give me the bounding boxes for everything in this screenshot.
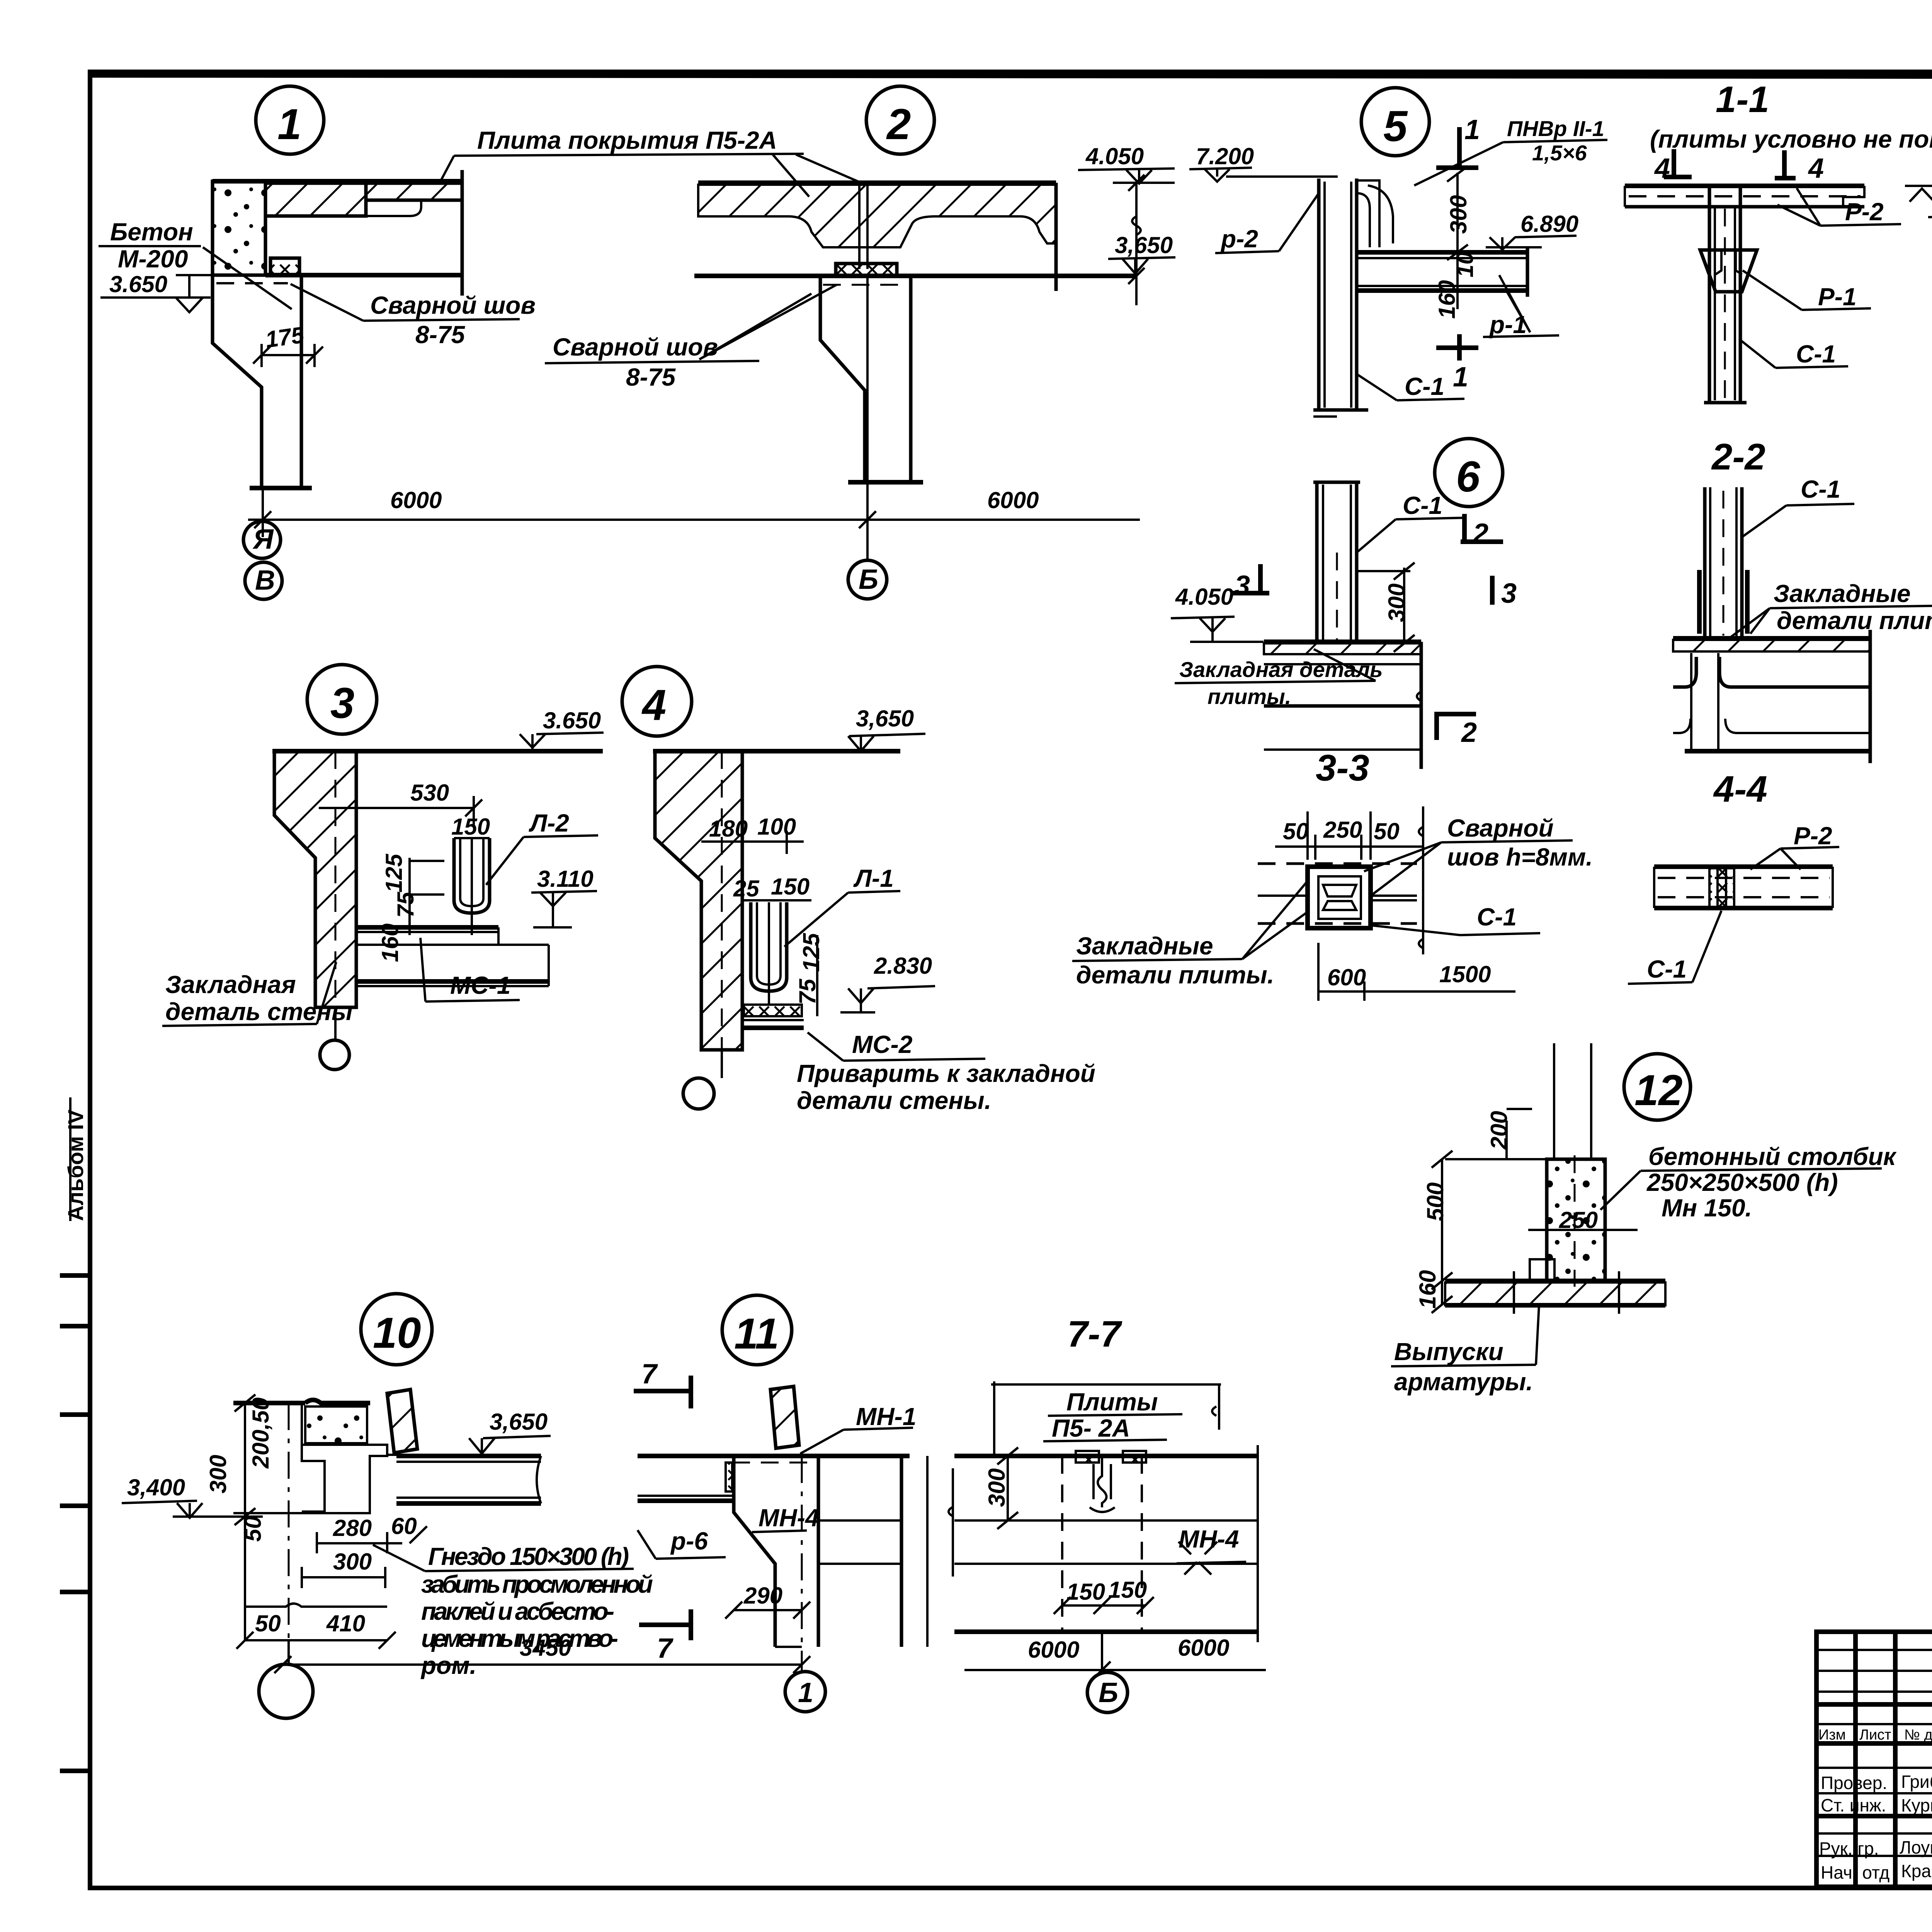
svg-text:4.050: 4.050 <box>1085 143 1144 169</box>
detail 2 callout circle <box>866 86 934 154</box>
detail 10 callout circle <box>361 1294 432 1365</box>
svg-text:250: 250 <box>1323 817 1362 843</box>
section mark 7 upper right of detail 10 <box>634 1359 692 1408</box>
detail 12 concrete post <box>1547 1155 1605 1287</box>
svg-text:3: 3 <box>1501 578 1517 609</box>
dimensions 125 75 detail 3 <box>381 853 444 935</box>
svg-text:3-3: 3-3 <box>1316 747 1369 789</box>
svg-text:8-75: 8-75 <box>415 321 466 349</box>
detail 10 anchor bolt <box>387 1389 419 1455</box>
section mark 1 bottom <box>1436 334 1478 393</box>
detail 11 anchor bolt <box>770 1386 799 1448</box>
dimension 200 detail 12 <box>1486 1109 1532 1150</box>
svg-text:500: 500 <box>1422 1182 1448 1221</box>
svg-text:Сварной шов: Сварной шов <box>553 333 718 361</box>
detail 1 slab body and bottom <box>265 170 462 296</box>
level mark 3,650 detail 4 <box>848 706 925 751</box>
svg-text:25: 25 <box>733 876 760 901</box>
svg-text:Мн 150.: Мн 150. <box>1662 1194 1752 1222</box>
label MH-4 section 7-7 <box>1177 1525 1246 1563</box>
detail 11 beam P-6 left <box>638 1463 734 1501</box>
detail 1 floor level line <box>176 274 270 276</box>
level mark 6.890 detail 5 <box>1486 211 1578 250</box>
dimension 500 detail 12 <box>1422 1151 1452 1305</box>
svg-text:6000: 6000 <box>390 487 442 513</box>
section 7-7 plate lines <box>949 1445 1258 1642</box>
svg-text:цементым раство-: цементым раство- <box>421 1624 618 1652</box>
bracket MC-1 detail 3 <box>356 923 549 986</box>
svg-text:ПНВр II-1: ПНВр II-1 <box>1507 116 1604 141</box>
section 7-7 joint pads <box>1076 1451 1146 1512</box>
svg-text:150: 150 <box>1066 1579 1105 1605</box>
svg-text:6.890: 6.890 <box>1520 211 1578 237</box>
level mark 3.650 detail 1 <box>100 271 211 312</box>
dimension 250 detail 12 <box>1528 1207 1638 1240</box>
detail 2 column axis <box>866 276 869 560</box>
section 7-7 slab top line <box>954 1454 1258 1458</box>
svg-text:12: 12 <box>1634 1066 1683 1114</box>
svg-text:Выпуски: Выпуски <box>1394 1338 1503 1366</box>
svg-text:плиты.: плиты. <box>1207 684 1291 709</box>
svg-text:200: 200 <box>1486 1111 1512 1150</box>
svg-text:шов h=8мм.: шов h=8мм. <box>1447 843 1593 871</box>
detail 4 wall hatched <box>653 751 900 1050</box>
section 1-1 beam P-2 <box>1625 186 1864 207</box>
detail 6 column C-1 <box>1313 482 1360 643</box>
label embedded plates 3-3 <box>1072 881 1308 989</box>
svg-text:4-4: 4-4 <box>1713 769 1767 810</box>
pad MC-2 detail 4 <box>742 1005 804 1028</box>
svg-text:МН-1: МН-1 <box>856 1403 916 1430</box>
label MH-1 <box>800 1403 916 1454</box>
level mark 3.110 detail 3 <box>531 866 597 927</box>
svg-text:50: 50 <box>1374 818 1400 844</box>
section title 3-3 <box>1316 747 1369 789</box>
svg-text:250×250×500 (h): 250×250×500 (h) <box>1646 1168 1838 1196</box>
svg-text:6000: 6000 <box>987 487 1039 513</box>
detail 5 callout circle <box>1361 88 1429 156</box>
svg-text:С-1: С-1 <box>1801 475 1840 503</box>
label C-1 section 4-4 <box>1628 911 1721 984</box>
section 3-3 dashed plate edges <box>1258 864 1417 923</box>
svg-text:50: 50 <box>240 1516 266 1542</box>
detail 2 right vertical dimension line <box>1128 175 1145 305</box>
svg-text:4: 4 <box>641 681 666 729</box>
detail 12 rebar stubs <box>1445 1043 1591 1159</box>
section title 1-1 <box>1716 79 1769 120</box>
svg-text:В: В <box>255 565 275 596</box>
detail 2 roof slab hatched <box>698 183 1056 247</box>
svg-text:Лист: Лист <box>1859 1727 1891 1743</box>
dimension 1500 section 3-3 <box>1364 961 1515 992</box>
label plates P5-2A section 7-7 <box>1043 1388 1182 1442</box>
socket note detail 10 <box>373 1543 653 1679</box>
svg-text:150: 150 <box>1108 1577 1147 1603</box>
label L-1 <box>784 864 900 947</box>
svg-text:6000: 6000 <box>1178 1635 1229 1661</box>
svg-text:1: 1 <box>277 100 301 148</box>
detail 2 slab bottom line <box>694 183 1136 291</box>
label concrete post 250x250x500 <box>1600 1143 1897 1222</box>
svg-text:4.050: 4.050 <box>1175 584 1233 610</box>
svg-text:1: 1 <box>1464 114 1480 145</box>
svg-text:1: 1 <box>1453 362 1468 393</box>
svg-text:160: 160 <box>377 923 403 962</box>
detail 1 roof slab hatched <box>213 181 462 216</box>
dimensions 180 100 detail 4 <box>701 814 804 854</box>
label P-2 section 4-4 <box>1750 822 1839 869</box>
detail 11 column with pocket <box>734 1456 927 1647</box>
svg-text:Грибкова: Грибкова <box>1901 1772 1932 1792</box>
dimension 10 and 160 vertical detail 5 <box>1434 252 1478 319</box>
section 7-7 dimension 300 <box>984 1447 1018 1529</box>
svg-text:60: 60 <box>391 1513 417 1539</box>
svg-text:Рук. гр.: Рук. гр. <box>1819 1838 1879 1859</box>
svg-text:7.200: 7.200 <box>1196 143 1254 169</box>
detail 1 bearing pad <box>270 258 299 275</box>
label P-6 <box>638 1527 726 1559</box>
detail 4 axis circle <box>683 1050 722 1109</box>
detail 5 beam end bracket <box>1357 180 1393 247</box>
section 4-4 beam plan P-2 <box>1654 867 1833 908</box>
svg-text:паклей и асбесто-: паклей и асбесто- <box>421 1597 614 1625</box>
svg-text:150: 150 <box>451 814 490 840</box>
section 3-3 beam lines <box>1258 896 1417 900</box>
detail 4 callout circle <box>622 667 692 736</box>
section 1-1 capital P-1 <box>1700 250 1757 292</box>
svg-text:1,5×6: 1,5×6 <box>1532 141 1587 165</box>
svg-text:290: 290 <box>743 1583 782 1609</box>
svg-text:3,650: 3,650 <box>856 706 914 731</box>
detail 2 column <box>820 276 923 482</box>
label weld seam h=8mm <box>1364 814 1593 896</box>
svg-text:детали стены.: детали стены. <box>797 1087 991 1114</box>
svg-text:10: 10 <box>1452 252 1478 277</box>
label weld seam 8-75 detail 1 <box>291 284 536 349</box>
detail 1 column <box>213 275 312 488</box>
svg-text:Красавин: Красавин <box>1901 1861 1932 1881</box>
svg-text:3,650: 3,650 <box>1115 232 1173 258</box>
svg-text:7: 7 <box>657 1633 673 1664</box>
svg-text:Изм: Изм <box>1818 1727 1846 1743</box>
svg-text:530: 530 <box>410 780 449 806</box>
svg-text:2: 2 <box>1472 518 1488 549</box>
svg-text:410: 410 <box>326 1611 365 1636</box>
svg-text:7: 7 <box>641 1359 658 1389</box>
svg-text:Сварной: Сварной <box>1447 814 1554 842</box>
dimension 6000 right of axis B <box>987 487 1039 513</box>
svg-text:Провер.: Провер. <box>1821 1773 1887 1793</box>
level mark 3.400 detail 10 <box>122 1475 226 1518</box>
detail 1 wall concrete block <box>213 181 265 275</box>
section mark 3 right <box>1492 576 1517 609</box>
label C-1 section 2-2 <box>1742 475 1854 537</box>
svg-text:4: 4 <box>1808 153 1824 184</box>
label C-1 detail 5 <box>1357 372 1464 400</box>
svg-text:5: 5 <box>1383 102 1408 150</box>
left margin tick marks <box>60 1276 90 1771</box>
detail 3 axis circle <box>320 1007 349 1070</box>
dimensions 25 150 detail 4 <box>733 874 811 901</box>
svg-text:6000: 6000 <box>1028 1637 1079 1663</box>
section 7-7 top dimension <box>991 1381 1221 1456</box>
label P-2 detail 5 <box>1215 193 1319 253</box>
section mark 4 right <box>1775 150 1824 184</box>
loop anchor L-2 detail 3 <box>454 838 490 935</box>
label P-2 section 1-1 <box>1777 188 1901 226</box>
dimension 530 detail 3 <box>319 780 482 827</box>
dimension 6000 between axes A and B <box>248 487 1140 528</box>
dimension 300 vertical detail 6 <box>1357 563 1415 652</box>
svg-text:МС-2: МС-2 <box>852 1031 912 1058</box>
axis bubble B(Б) detail 2 <box>848 560 887 599</box>
svg-text:Плита покрытия П5-2А: Плита покрытия П5-2А <box>477 126 777 154</box>
label embedded plate detail 6 <box>1175 649 1383 709</box>
level mark 2.830 detail 4 <box>840 953 935 1012</box>
level mark 4.050 detail 2 <box>1078 143 1175 184</box>
detail 10 left dimension chain <box>205 1395 289 1640</box>
label L-2 <box>486 809 598 885</box>
section mark 3 left <box>1231 564 1269 601</box>
level mark 3,650 detail 10 <box>469 1409 551 1456</box>
title block header texts <box>1818 1727 1932 1743</box>
label MH-4 detail 11 <box>752 1504 819 1532</box>
svg-text:ром.: ром. <box>420 1651 476 1679</box>
detail 3 callout circle <box>307 665 377 734</box>
svg-text:С-1: С-1 <box>1403 492 1442 519</box>
detail 11 axis circle 1 <box>785 1456 825 1712</box>
detail 2 center rib <box>859 183 867 269</box>
dimension 300 detail 10 <box>302 1549 385 1588</box>
section 1-1 column C-1 <box>1704 186 1747 403</box>
section 3-3 vertical dimension line <box>1419 806 1423 954</box>
label rebar outlets <box>1391 1305 1539 1396</box>
loop anchor L-1 detail 4 <box>751 902 787 1005</box>
svg-text:2: 2 <box>1461 717 1477 748</box>
label weld seam 8-75 detail 2 <box>545 285 837 391</box>
label embedded wall plate detail 3 <box>162 962 353 1026</box>
section 2-2 column C-1 <box>1699 487 1747 638</box>
svg-text:Закладные: Закладные <box>1076 932 1213 960</box>
detail 12 socket box <box>1530 1259 1554 1281</box>
detail 3 wall hatched <box>272 751 603 1007</box>
detail 5 column C-1 <box>1313 179 1368 417</box>
svg-text:50: 50 <box>255 1611 281 1636</box>
label MC-2 and weld note <box>797 1031 1095 1114</box>
label concrete M-200 <box>99 218 292 309</box>
svg-text:7-7: 7-7 <box>1067 1313 1122 1355</box>
note plates not shown 1-1 <box>1650 125 1932 153</box>
svg-text:3.110: 3.110 <box>537 866 594 892</box>
detail 12 base slab <box>1445 1271 1665 1314</box>
svg-text:С-1: С-1 <box>1405 372 1444 400</box>
svg-text:Ст. инж.: Ст. инж. <box>1821 1795 1886 1815</box>
svg-text:125: 125 <box>798 932 824 972</box>
dimension 160 detail 12 <box>1415 1270 1452 1313</box>
svg-text:125: 125 <box>381 853 407 893</box>
svg-text:№ докум: № докум <box>1904 1727 1932 1743</box>
svg-text:Р-2: Р-2 <box>1794 822 1832 850</box>
detail 2 bearing pad <box>836 264 897 276</box>
svg-text:6: 6 <box>1456 452 1480 501</box>
axis bubble A <box>243 521 281 558</box>
svg-text:Закладные: Закладные <box>1774 580 1911 607</box>
section title 2-2 <box>1711 436 1765 478</box>
svg-text:МН-4: МН-4 <box>759 1504 819 1532</box>
dimension 290 detail 11 <box>725 1583 810 1619</box>
svg-text:Сварной шов: Сварной шов <box>370 291 536 319</box>
svg-text:С-1: С-1 <box>1477 903 1517 931</box>
dimension 280 60 detail 10 <box>317 1513 427 1553</box>
label C-1 section 1-1 <box>1740 340 1848 368</box>
dimension 600 section 3-3 <box>1318 943 1366 1001</box>
section 2-2 floor slab with ribs <box>1673 630 1870 763</box>
svg-text:200,50: 200,50 <box>248 1397 274 1469</box>
svg-text:Курганова: Курганова <box>1901 1795 1932 1815</box>
detail 11 floor line <box>638 1456 910 1463</box>
level mark 7.200 section 1-1 <box>1905 186 1932 217</box>
dimension 175 <box>253 321 323 367</box>
svg-text:Лоуцкер: Лоуцкер <box>1900 1837 1932 1857</box>
svg-text:Я: Я <box>252 524 274 555</box>
svg-text:Р-2: Р-2 <box>1845 198 1884 226</box>
level mark 7.200 near detail 5 <box>1189 143 1338 182</box>
detail 1 column axis line <box>262 488 264 537</box>
svg-text:бетонный столбик: бетонный столбик <box>1648 1143 1897 1170</box>
detail 10 wall body with seat <box>233 1403 387 1513</box>
level mark 3.650 detail 3 <box>520 707 604 751</box>
detail 1 dashed joint line <box>216 282 288 284</box>
label C-1 section 3-3 <box>1372 903 1540 935</box>
svg-text:2-2: 2-2 <box>1711 436 1765 478</box>
svg-text:1: 1 <box>798 1677 813 1708</box>
title block staff table horizontals <box>1816 1650 1932 1856</box>
section mark 1 top <box>1436 114 1480 169</box>
svg-text:С-1: С-1 <box>1796 340 1836 368</box>
dimensions 75 125 detail 4 <box>794 932 824 1016</box>
svg-text:300: 300 <box>984 1468 1010 1507</box>
svg-text:р-6: р-6 <box>670 1527 708 1555</box>
section mark 2 bottom <box>1434 713 1477 748</box>
svg-text:арматуры.: арматуры. <box>1394 1368 1533 1396</box>
label P-1 detail 5 <box>1483 275 1559 338</box>
level mark 3.650 detail 2 <box>1108 232 1175 276</box>
title block outer box <box>1816 1632 1932 1887</box>
section mark 2 top <box>1461 514 1503 549</box>
svg-text:Плиты: Плиты <box>1066 1388 1158 1416</box>
svg-text:Б: Б <box>859 564 878 595</box>
svg-text:Приварить к закладной: Приварить к закладной <box>797 1060 1095 1087</box>
title block staff table verticals <box>1855 1632 1932 1887</box>
svg-text:1-1: 1-1 <box>1716 79 1769 120</box>
svg-text:(плиты условно не показаны): (плиты условно не показаны) <box>1650 125 1932 153</box>
svg-text:8-75: 8-75 <box>626 363 676 391</box>
detail 1 callout circle <box>256 86 324 154</box>
detail 5 beam P-1 <box>1357 247 1527 297</box>
section 7-7 axis circle B <box>1087 1632 1128 1713</box>
svg-text:Б: Б <box>1099 1677 1118 1708</box>
axis bubble B <box>245 562 282 599</box>
detail 10 top wall line <box>233 1400 370 1403</box>
section title 7-7 <box>1067 1313 1122 1355</box>
svg-text:300: 300 <box>205 1455 231 1493</box>
svg-text:детали плиты.: детали плиты. <box>1777 607 1932 634</box>
label P-1 section 1-1 <box>1743 270 1871 311</box>
svg-text:300: 300 <box>1384 583 1410 622</box>
section 3-3 dimension 50 250 50 <box>1275 811 1422 860</box>
svg-text:160: 160 <box>1434 280 1460 319</box>
svg-text:П5- 2А: П5- 2А <box>1052 1414 1130 1442</box>
svg-text:МС-1: МС-1 <box>450 971 510 999</box>
svg-text:р-2: р-2 <box>1220 225 1258 253</box>
title block staff names <box>1819 1772 1932 1883</box>
svg-text:М-200: М-200 <box>118 245 188 273</box>
svg-text:160: 160 <box>1415 1270 1440 1309</box>
svg-text:С-1: С-1 <box>1647 955 1687 983</box>
label MC-1 <box>420 938 520 1002</box>
label C-1 detail 6 <box>1357 492 1464 553</box>
label PNVr II-1 1,5x6 <box>1414 116 1607 185</box>
dimension 150 150 section 7-7 <box>1054 1577 1154 1614</box>
svg-text:2.830: 2.830 <box>874 953 932 979</box>
svg-text:1500: 1500 <box>1439 961 1491 987</box>
label embedded plates 2-2 <box>1731 580 1932 637</box>
svg-text:3.650: 3.650 <box>543 707 601 733</box>
svg-text:Бетон: Бетон <box>110 218 193 246</box>
svg-text:3,400: 3,400 <box>127 1475 185 1500</box>
svg-text:Закладная: Закладная <box>165 971 296 998</box>
dimension 410 50 detail 10 <box>236 1604 396 1649</box>
detail 10 beam P-6 <box>396 1456 541 1503</box>
detail 6 floor slab <box>1264 642 1421 769</box>
svg-text:МН-4: МН-4 <box>1179 1525 1239 1553</box>
svg-text:детали плиты.: детали плиты. <box>1076 961 1274 989</box>
svg-text:3: 3 <box>1235 570 1250 601</box>
section 3-3 column box section <box>1308 867 1371 928</box>
dimension 300 vertical detail 5 <box>1446 166 1471 260</box>
detail 10 axis circle <box>259 1640 313 1718</box>
section title 4-4 <box>1713 769 1767 810</box>
detail 12 callout circle <box>1624 1054 1690 1120</box>
detail 11 callout circle <box>722 1295 792 1365</box>
section mark 7 lower <box>639 1609 692 1664</box>
svg-text:Р-1: Р-1 <box>1818 283 1857 311</box>
svg-text:11: 11 <box>734 1310 779 1358</box>
svg-text:10: 10 <box>373 1309 421 1357</box>
section mark 4 left <box>1654 149 1692 184</box>
svg-text:3: 3 <box>330 679 354 727</box>
svg-text:Нач. отд: Нач. отд <box>1821 1862 1889 1883</box>
svg-text:280: 280 <box>333 1515 372 1541</box>
dimension 3450 detail 10-11 <box>274 1635 810 1673</box>
detail 2 dashed joint line <box>823 284 903 286</box>
level mark 4.050 detail 6 <box>1171 584 1264 642</box>
detail 6 callout circle <box>1435 439 1503 507</box>
svg-text:Альбом IV: Альбом IV <box>63 1110 88 1221</box>
svg-text:2: 2 <box>886 100 911 148</box>
svg-text:600: 600 <box>1327 964 1366 990</box>
left margin album text <box>63 1097 88 1221</box>
dimension 150 detail 3 <box>451 814 490 840</box>
svg-text:150: 150 <box>771 874 810 900</box>
svg-text:300: 300 <box>333 1549 372 1575</box>
label roof plate P5-2A <box>440 126 866 197</box>
svg-text:забить просмоленной: забить просмоленной <box>421 1570 653 1598</box>
svg-text:Л-2: Л-2 <box>529 809 569 837</box>
svg-text:100: 100 <box>757 814 796 840</box>
svg-text:Гнездо 150×300 (h): Гнездо 150×300 (h) <box>428 1543 629 1570</box>
svg-text:50: 50 <box>1283 818 1309 844</box>
